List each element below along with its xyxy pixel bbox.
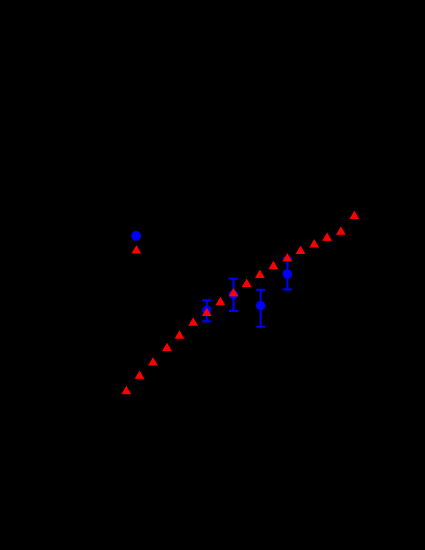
data point T6 (red triangle): [188, 317, 198, 325]
data point T5 (red triangle): [175, 330, 185, 338]
data point T3 (red triangle): [148, 357, 158, 365]
legend marker: red triangle: [132, 245, 142, 253]
data point T17 (red triangle): [336, 226, 346, 234]
data point T4 (red triangle): [162, 343, 172, 351]
data point T2 (red triangle): [135, 371, 145, 379]
data point T12 (red triangle): [269, 261, 279, 269]
error bar E2: [229, 279, 238, 311]
data point T7 (red triangle): [202, 308, 212, 316]
data point B1 (blue circle): [202, 306, 211, 315]
data point T9 (red triangle): [229, 288, 239, 296]
data point T11 (red triangle): [255, 270, 265, 278]
legend marker: blue circle: [131, 231, 141, 241]
data point B2 (blue circle): [229, 290, 238, 299]
data point T18 (red triangle): [349, 211, 359, 219]
data point T10 (red triangle): [242, 279, 252, 287]
data point B3 (blue circle): [256, 301, 265, 310]
data point T16 (red triangle): [322, 233, 332, 241]
error bar E3: [256, 290, 265, 327]
data point T14 (red triangle): [296, 246, 306, 254]
axes frame: [72, 58, 388, 462]
data point T1 (red triangle): [121, 386, 131, 394]
data point B4 (blue circle): [283, 269, 292, 278]
data point T8 (red triangle): [216, 297, 226, 305]
error bar E1: [202, 300, 211, 321]
data point T13 (red triangle): [282, 253, 292, 261]
data point T15 (red triangle): [309, 239, 319, 247]
error bar E4: [283, 258, 292, 290]
